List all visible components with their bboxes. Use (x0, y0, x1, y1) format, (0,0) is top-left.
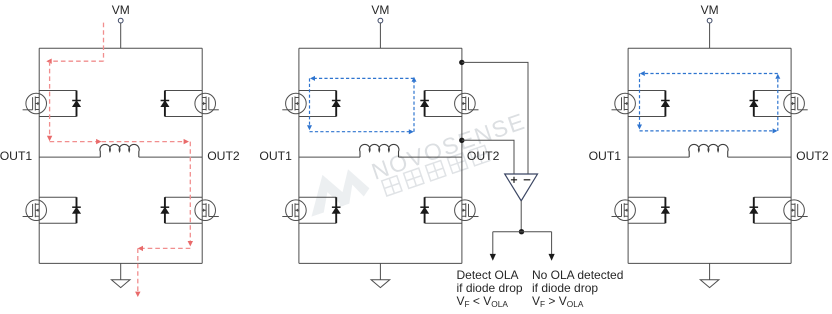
body diode D1B (161, 91, 203, 117)
svg-text:Detect OLA: Detect OLA (457, 268, 519, 282)
wire: bottom rail (bridge 1) (39, 262, 202, 264)
transistor Q2A high-side left (NMOS) (282, 93, 306, 114)
current path (red dashed): VM through Q1A, winding, Q1D to GND (46, 23, 193, 297)
wire: bottom rail (bridge 2) (299, 262, 462, 264)
transistor Q3D low-side right (NMOS) (784, 200, 808, 221)
wire: right rail (bridge 2) (461, 48, 463, 263)
annotation: no OLA condition (532, 268, 623, 309)
body diode D3C (628, 197, 670, 223)
body diode D3B (750, 91, 792, 117)
body diode D1D (161, 197, 203, 223)
wire: left rail (bridge 3) (627, 48, 629, 263)
transistor Q1D low-side right (NMOS) (195, 200, 219, 221)
transistor Q3C low-side left (NMOS) (612, 200, 636, 221)
current path (blue dashed): recirculation loop bridge 2 (307, 76, 417, 134)
svg-text:VM: VM (371, 3, 389, 17)
svg-text:OUT1: OUT1 (259, 149, 292, 163)
transistor Q2C low-side left (NMOS) (282, 200, 306, 221)
power net VM (bridge 2) (371, 3, 389, 23)
svg-text:OUT2: OUT2 (796, 149, 829, 163)
transistor Q3A high-side left (NMOS) (612, 93, 636, 114)
svg-text:NOVOSENSE: NOVOSENSE (368, 108, 529, 185)
body diode D2B (420, 91, 462, 117)
annotation: detect OLA condition (457, 268, 523, 309)
svg-text:VF < VOLA: VF < VOLA (457, 294, 509, 309)
wire: left rail (bridge 2) (298, 48, 300, 263)
transistor Q3B high-side right (NMOS) (784, 93, 808, 114)
svg-text:VM: VM (701, 3, 719, 17)
wire: OUT1 lead (bridge 1) (39, 156, 100, 158)
svg-text:VM: VM (112, 3, 130, 17)
wire: VM feed to top rail (bridge 1) (120, 23, 122, 48)
wire: top rail (bridge 1) (39, 47, 202, 49)
wire: OUT2 lead (bridge 2) (399, 156, 462, 158)
junction: output split node (519, 229, 524, 234)
body diode D3A (628, 91, 670, 117)
body diode D2A (299, 91, 341, 117)
wire: output split rail (493, 231, 552, 233)
svg-text:OUT2: OUT2 (207, 149, 240, 163)
wire: right rail (bridge 1) (201, 48, 203, 263)
comparator U1 (505, 174, 538, 201)
transistor Q2D low-side right (NMOS) (455, 200, 479, 221)
wire: right rail (bridge 3) (790, 48, 792, 263)
wire: left result arrow (490, 232, 496, 261)
body diode D1C (39, 197, 81, 223)
wire: VM feed to top rail (bridge 3) (709, 23, 711, 48)
power net VM (bridge 1) (112, 3, 130, 23)
svg-text:if diode drop: if diode drop (457, 281, 523, 295)
wire: upper tap to comparator inverting input (462, 62, 528, 174)
wire: OUT2 lead (bridge 3) (728, 156, 791, 158)
wire: bottom rail (bridge 3) (628, 262, 791, 264)
wire: top rail (bridge 3) (628, 47, 791, 49)
wire: OUT1 lead (bridge 2) (299, 156, 360, 158)
transistor Q1B high-side right (NMOS) (195, 93, 219, 114)
junction: comparator tap upper (drain node) (459, 60, 464, 65)
wire: VM feed to top rail (bridge 2) (379, 23, 381, 48)
inductor L2 (motor winding) (360, 144, 399, 157)
body diode D2D (420, 197, 462, 223)
svg-text:No OLA detected: No OLA detected (532, 268, 623, 282)
junction: comparator tap lower (OUT2 node) (459, 138, 464, 143)
wire: top rail (bridge 2) (299, 47, 462, 49)
wire: comparator output (520, 201, 522, 232)
wire: left rail (bridge 1) (38, 48, 40, 263)
transistor Q2B high-side right (NMOS) (455, 93, 479, 114)
transistor Q1C low-side left (NMOS) (23, 200, 47, 221)
wire: OUT1 lead (bridge 3) (628, 156, 689, 158)
ground symbol (bridge 3) (700, 263, 719, 287)
wire: lower tap to comparator non-inverting input (462, 140, 514, 174)
svg-text:OUT1: OUT1 (589, 149, 622, 163)
body diode D2C (299, 197, 341, 223)
ground symbol (bridge 1) (111, 263, 130, 287)
svg-text:OUT2: OUT2 (467, 149, 500, 163)
body diode D3D (750, 197, 792, 223)
wire: OUT2 lead (bridge 1) (139, 156, 202, 158)
transistor Q1A high-side left (NMOS) (23, 93, 47, 114)
body diode D1A (39, 91, 81, 117)
inductor L1 (motor winding) (100, 144, 139, 157)
svg-text:OUT1: OUT1 (0, 149, 32, 163)
current path (blue dashed): recirculation loop bridge 3 (637, 71, 780, 133)
power net VM (bridge 3) (701, 3, 719, 23)
svg-text:if diode drop: if diode drop (532, 281, 598, 295)
inductor L3 (motor winding) (689, 144, 728, 157)
svg-text:VF > VOLA: VF > VOLA (532, 294, 584, 309)
wire: right result arrow (549, 232, 555, 261)
watermark: NOVOSENSE logo and text (decorative but drawn for fidelity) (300, 107, 534, 222)
ground symbol (bridge 2) (371, 263, 390, 287)
